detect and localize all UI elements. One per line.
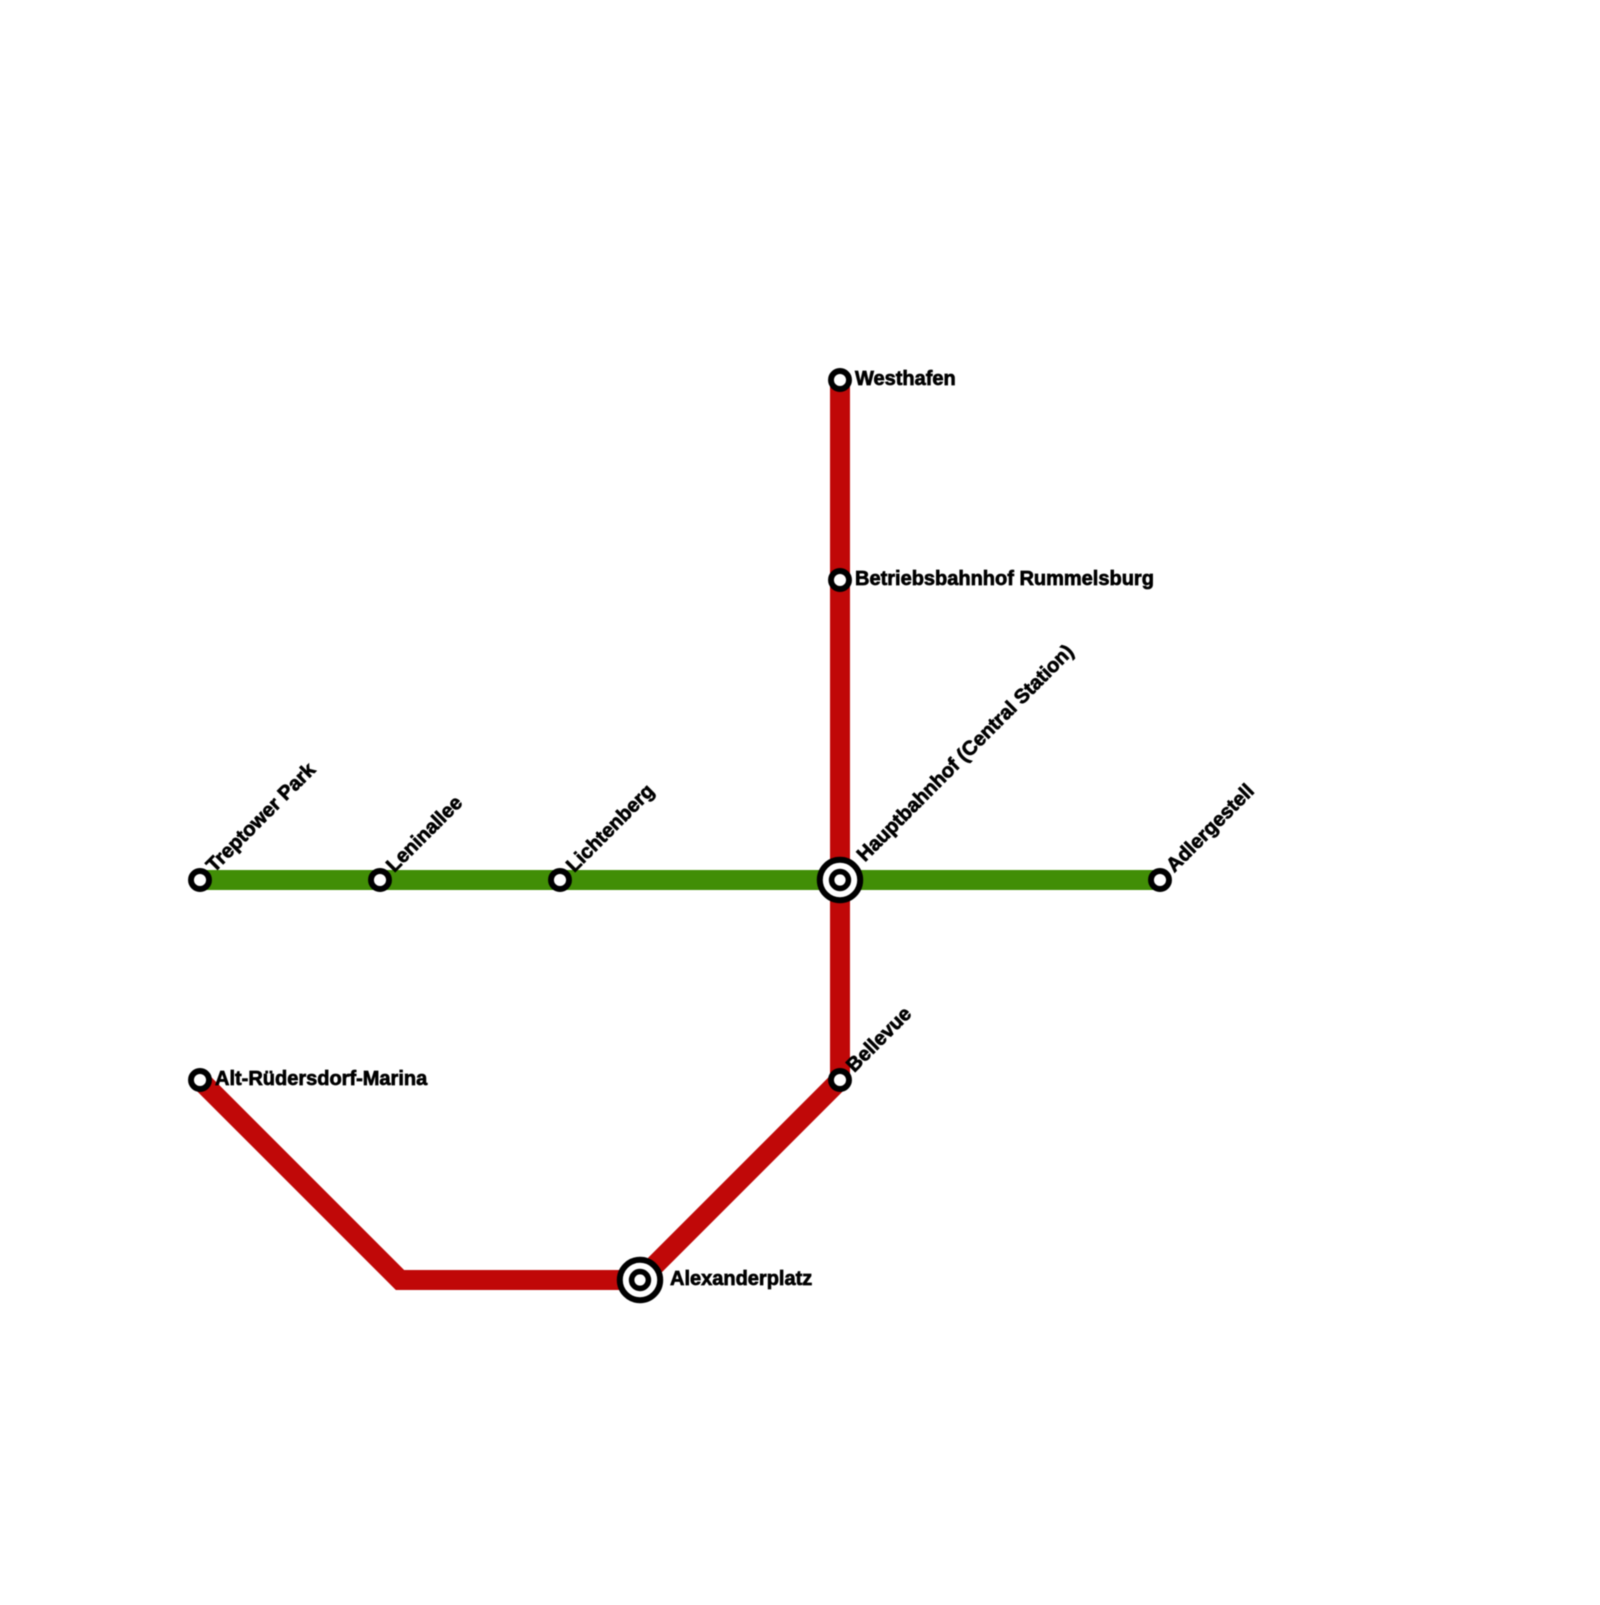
svg-text:Betriebsbahnhof Rummelsburg: Betriebsbahnhof Rummelsburg	[855, 568, 1154, 590]
interchange Hauptbahnhof (Central Station)	[820, 860, 860, 900]
red line (Westhafen - Alt-Ruedersdorf-Marina)	[200, 380, 840, 1280]
label Adlergestell	[1162, 780, 1259, 877]
station Lichtenberg	[551, 871, 569, 889]
station Westhafen	[831, 371, 849, 389]
label Lichtenberg	[562, 780, 658, 876]
label Bellevue	[842, 1003, 916, 1077]
interchange Alexanderplatz	[620, 1260, 660, 1300]
station Treptower Park	[191, 871, 209, 889]
label Leninallee	[382, 792, 467, 877]
station Leninallee	[371, 871, 389, 889]
station Bellevue	[831, 1071, 849, 1089]
svg-text:Westhafen: Westhafen	[855, 368, 956, 390]
station Adlergestell	[1151, 871, 1169, 889]
svg-text:Alt-Rüdersdorf-Marina: Alt-Rüdersdorf-Marina	[215, 1068, 428, 1090]
green line (Treptower Park - Adlergestell)	[200, 870, 1160, 890]
station Betriebsbahnhof Rummelsburg	[831, 571, 849, 589]
station Alt-Ruedersdorf-Marina	[191, 1071, 209, 1089]
label Hauptbahnhof (Central Station)	[853, 641, 1078, 866]
label Treptower Park	[202, 758, 320, 876]
svg-text:Alexanderplatz: Alexanderplatz	[670, 1268, 812, 1290]
